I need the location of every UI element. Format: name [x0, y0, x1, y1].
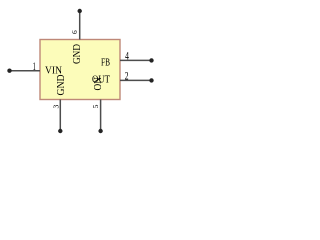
terminal dot pin 4 [149, 58, 153, 62]
wire pin 1 (VIN, left) [10, 70, 41, 72]
wire pin 3 (GND, bottom left) [59, 100, 61, 132]
svg-text:6: 6 [70, 30, 79, 34]
svg-text:GND: GND [55, 74, 67, 95]
svg-text:3: 3 [51, 104, 60, 108]
wire pin 6 (GND, top) [79, 11, 81, 40]
svg-text:1: 1 [33, 61, 36, 73]
terminal dot pin 5 [98, 129, 102, 133]
svg-text:ON: ON [92, 77, 104, 91]
svg-text:GND: GND [71, 44, 83, 64]
svg-text:2: 2 [125, 70, 129, 82]
svg-text:4: 4 [125, 51, 129, 63]
svg-text:FB: FB [101, 56, 110, 68]
wire pin 4 (FB, right top) [120, 59, 152, 61]
svg-text:5: 5 [91, 104, 100, 108]
wire pin 5 (ON, bottom right) [100, 100, 102, 132]
wire pin 2 (OUT, right bottom) [120, 79, 152, 81]
terminal dot pin 1 [7, 69, 11, 73]
terminal dot pin 2 [149, 78, 153, 82]
terminal dot pin 6 [78, 9, 82, 13]
terminal dot pin 3 [58, 129, 62, 133]
IC body U1 (voltage regulator symbol) [40, 40, 120, 100]
